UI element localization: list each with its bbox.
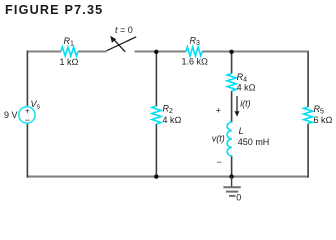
svg-text:9 V: 9 V <box>4 110 18 120</box>
svg-text:4 kΩ: 4 kΩ <box>163 115 182 125</box>
svg-text:R1: R1 <box>64 36 75 48</box>
svg-text:FIGURE P7.35: FIGURE P7.35 <box>5 3 103 17</box>
svg-text:−: − <box>217 157 222 167</box>
svg-text:1.6 kΩ: 1.6 kΩ <box>182 56 209 66</box>
svg-text:1 kΩ: 1 kΩ <box>60 57 79 67</box>
svg-text:t = 0: t = 0 <box>115 25 133 35</box>
svg-text:0: 0 <box>236 193 241 203</box>
svg-text:R3: R3 <box>190 36 201 48</box>
svg-text:−: − <box>25 115 30 125</box>
svg-text:4 kΩ: 4 kΩ <box>237 83 256 93</box>
svg-text:R5: R5 <box>314 104 325 116</box>
svg-text:450 mH: 450 mH <box>238 137 270 147</box>
svg-text:L: L <box>239 126 244 136</box>
svg-text:6 kΩ: 6 kΩ <box>314 115 333 125</box>
svg-text:Vs: Vs <box>31 99 41 111</box>
svg-text:i(t): i(t) <box>240 98 251 108</box>
svg-text:+: + <box>216 106 221 116</box>
svg-text:v(t): v(t) <box>212 134 225 144</box>
svg-text:R2: R2 <box>163 104 174 116</box>
